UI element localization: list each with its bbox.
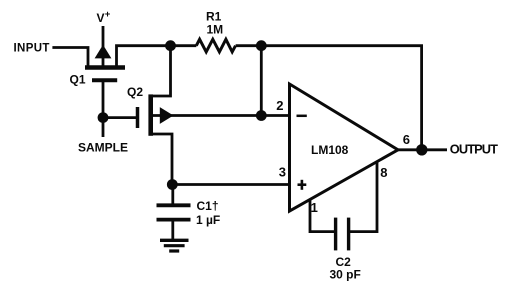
svg-text:8: 8: [380, 165, 387, 180]
svg-text:C1†: C1†: [197, 199, 219, 213]
node junction dot pin2 wire: [256, 110, 267, 121]
wire op-amp pin 1 to C2: [310, 200, 334, 232]
wire Q1 gate to SAMPLE node: [102, 81, 105, 137]
wire node B vertical: [260, 46, 263, 116]
op-amp minus sign: [297, 115, 307, 118]
capacitor C1 bottom plate: [157, 218, 191, 222]
wire feedback top rail: [261, 46, 421, 150]
ground symbol: [160, 239, 189, 242]
transistor Q1 arrow stem: [102, 57, 105, 68]
node output junction dot: [416, 144, 427, 155]
wire V+ lead: [102, 26, 105, 47]
svg-text:INPUT: INPUT: [14, 43, 50, 55]
wire node C down to C1: [171, 185, 174, 205]
op-amp plus sign: [298, 183, 307, 186]
capacitor C2 left plate: [334, 218, 337, 251]
wire Q2 arrow lead to op-amp pin 2: [152, 114, 290, 117]
node A junction dot: [165, 40, 176, 51]
capacitor C2 right plate: [347, 218, 350, 251]
resistor R1 zigzag: [196, 39, 235, 52]
wire Q2 source down to node C: [151, 134, 172, 185]
wire node A down to Q2 drain: [151, 46, 171, 96]
wire op-amp output pin 6 to OUTPUT: [398, 148, 447, 151]
svg-text:1 µF: 1 µF: [196, 213, 220, 227]
wire node A to R1: [171, 44, 197, 47]
wire node C to op-amp pin 3: [172, 183, 290, 186]
transistor Q2 channel bar: [148, 94, 153, 135]
wire Q1 drain to node A: [117, 46, 171, 68]
node B junction dot (R1 right): [256, 40, 267, 51]
transistor Q1 channel bar: [85, 65, 125, 70]
svg-text:6: 6: [403, 132, 410, 147]
svg-text:+: +: [105, 9, 111, 20]
svg-text:3: 3: [279, 165, 286, 180]
wire R1 to node B: [236, 44, 262, 47]
op-amp U1 LM108 triangle: [290, 84, 399, 211]
transistor Q2 arrow: [160, 107, 174, 124]
wire SAMPLE node to Q2 gate: [103, 116, 136, 119]
node C junction dot: [167, 179, 178, 190]
transistor Q1 gate bar: [92, 78, 117, 82]
svg-text:Q1: Q1: [70, 72, 86, 86]
wire C1 to ground: [171, 221, 174, 239]
wire op-amp pin 8 to C2: [350, 162, 377, 232]
transistor Q2 gate plate: [136, 107, 140, 128]
transistor Q1 arrow: [95, 45, 112, 59]
capacitor C1 top plate: [157, 203, 191, 207]
svg-text:OUTPUT: OUTPUT: [450, 142, 498, 157]
svg-text:1M: 1M: [207, 23, 224, 37]
svg-text:V: V: [97, 11, 105, 25]
svg-text:1: 1: [311, 200, 318, 215]
svg-text:2: 2: [276, 98, 283, 113]
svg-text:R1: R1: [206, 10, 222, 24]
node SAMPLE junction dot: [98, 112, 109, 123]
svg-text:Q2: Q2: [127, 85, 143, 99]
svg-text:30 pF: 30 pF: [330, 268, 361, 282]
wire INPUT to Q1 source: [52, 48, 88, 68]
svg-text:SAMPLE: SAMPLE: [78, 141, 128, 155]
svg-text:LM108: LM108: [311, 143, 349, 157]
